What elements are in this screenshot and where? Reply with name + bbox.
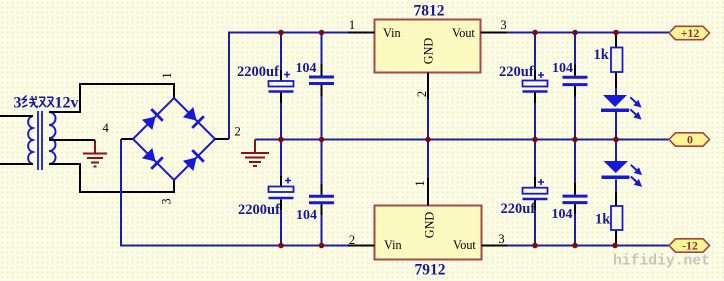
svg-text:2: 2	[235, 125, 241, 139]
svg-text:hifidiy.net: hifidiy.net	[613, 254, 710, 270]
regulator U2 7912 body	[375, 206, 482, 260]
U2 pin 2 stub	[348, 245, 375, 247]
capacitor C6 104 top ceramic	[563, 77, 588, 84]
LED D6 bottom wires	[615, 140, 617, 193]
U1 pin 2 stub	[427, 73, 429, 100]
capacitor C4 104 bottom ceramic	[309, 196, 334, 203]
wire U1 GND to zero rail to U2 GND	[427, 99, 429, 178]
svg-text:GND: GND	[422, 38, 436, 65]
diode bottom-right of bridge	[182, 149, 204, 171]
svg-text:3: 3	[14, 95, 22, 112]
capacitor C3 2200uf bottom electrolytic	[269, 187, 294, 193]
capacitor C1 2200uf wires	[280, 34, 282, 246]
svg-text:12v: 12v	[55, 95, 79, 112]
svg-text:7812: 7812	[414, 3, 445, 20]
resistor R1 1k body	[611, 48, 623, 73]
svg-text:2: 2	[415, 91, 429, 97]
capacitor C5 220uf top electrolytic	[523, 81, 548, 87]
svg-text:1: 1	[160, 72, 174, 78]
resistor R2 1k body	[611, 206, 623, 230]
svg-text:1: 1	[413, 180, 427, 186]
diode top-right of bridge	[182, 106, 204, 128]
capacitor C8 104 bottom ceramic	[563, 196, 588, 203]
capacitor C1 2200uf top electrolytic	[269, 81, 294, 87]
diode bottom-left of bridge	[141, 147, 163, 169]
junction dots top rail	[278, 30, 619, 36]
capacitor C2 104 wires	[321, 34, 323, 246]
wire primary top lead	[0, 115, 33, 117]
wire secondary top lead to bridge pin 1	[49, 84, 174, 112]
U1 pin 3 stub	[481, 32, 508, 34]
svg-text:2200uf: 2200uf	[237, 64, 279, 80]
svg-text:104: 104	[296, 61, 317, 76]
ground symbol on zero volt rail	[241, 140, 269, 167]
ground symbol at transformer center tap	[83, 140, 107, 167]
U1 pin 1 stub	[348, 32, 375, 34]
power port +12	[669, 26, 710, 40]
svg-text:7912: 7912	[415, 262, 446, 279]
LED D6 arrows	[631, 165, 641, 186]
capacitor C6 104 wires	[574, 34, 576, 246]
svg-text:220uf: 220uf	[499, 64, 534, 80]
svg-text:GND: GND	[423, 212, 437, 239]
transformer T1 core	[38, 111, 42, 170]
wire bottom rail right of 7912	[507, 245, 669, 247]
svg-text:2: 2	[349, 233, 355, 247]
svg-text:1: 1	[349, 18, 355, 32]
wire riser from bridge pin 2 to top rail	[229, 33, 348, 140]
svg-text:Vout: Vout	[452, 26, 475, 40]
svg-text:4: 4	[103, 121, 110, 135]
svg-text:3: 3	[498, 232, 504, 246]
wire top rail right of 7812	[507, 32, 669, 34]
capacitor C7 220uf bottom electrolytic	[523, 188, 548, 194]
svg-text:104: 104	[552, 61, 573, 76]
U2 pin 1 stub	[427, 178, 429, 206]
svg-text:-12: -12	[682, 239, 698, 253]
svg-text:+12: +12	[681, 26, 700, 40]
wire drop from bridge pin 4 to bottom rail	[121, 139, 348, 246]
LED D5 top	[603, 95, 627, 107]
junction dots zero rail	[278, 137, 619, 143]
svg-text:Vin: Vin	[383, 26, 401, 40]
capacitor C2 104 top ceramic	[309, 77, 334, 84]
junction dots bottom rail	[278, 243, 618, 249]
wire secondary bottom lead to bridge pin 3	[49, 164, 174, 192]
regulator U1 7812 body	[375, 20, 481, 73]
power port 0	[669, 133, 710, 147]
capacitor C5 220uf wires	[534, 34, 536, 246]
svg-text:2200uf: 2200uf	[238, 202, 280, 218]
wire bridge pin 4 stub	[121, 138, 133, 140]
svg-text:220uf: 220uf	[501, 201, 536, 217]
svg-text:104: 104	[552, 207, 573, 222]
power port -12	[669, 239, 710, 253]
wire zero volt rail	[255, 139, 669, 141]
svg-text:3: 3	[500, 18, 506, 32]
LED D6 bottom	[604, 161, 629, 173]
svg-text:0: 0	[687, 133, 693, 147]
svg-text:3: 3	[160, 198, 174, 204]
resistor R1 1k wires	[615, 33, 617, 89]
svg-text:Vin: Vin	[384, 238, 402, 252]
U2 pin 3 stub	[482, 245, 508, 247]
wire secondary center tap	[49, 139, 95, 141]
svg-text:1k: 1k	[595, 212, 611, 228]
svg-text:1k: 1k	[594, 47, 610, 63]
transformer T1 label 3线双12v	[14, 95, 79, 112]
svg-text:Vout: Vout	[453, 238, 476, 252]
LED D5 arrows	[630, 97, 640, 118]
diode top-left of bridge	[141, 108, 163, 130]
svg-text:104: 104	[296, 208, 317, 223]
wire primary bottom lead	[0, 163, 33, 165]
wire bridge pin 2 stub	[215, 138, 229, 140]
transformer T1 secondary winding	[49, 112, 56, 164]
transformer T1 primary winding	[28, 116, 32, 164]
bridge rectifier D1 diamond outline	[133, 98, 215, 180]
